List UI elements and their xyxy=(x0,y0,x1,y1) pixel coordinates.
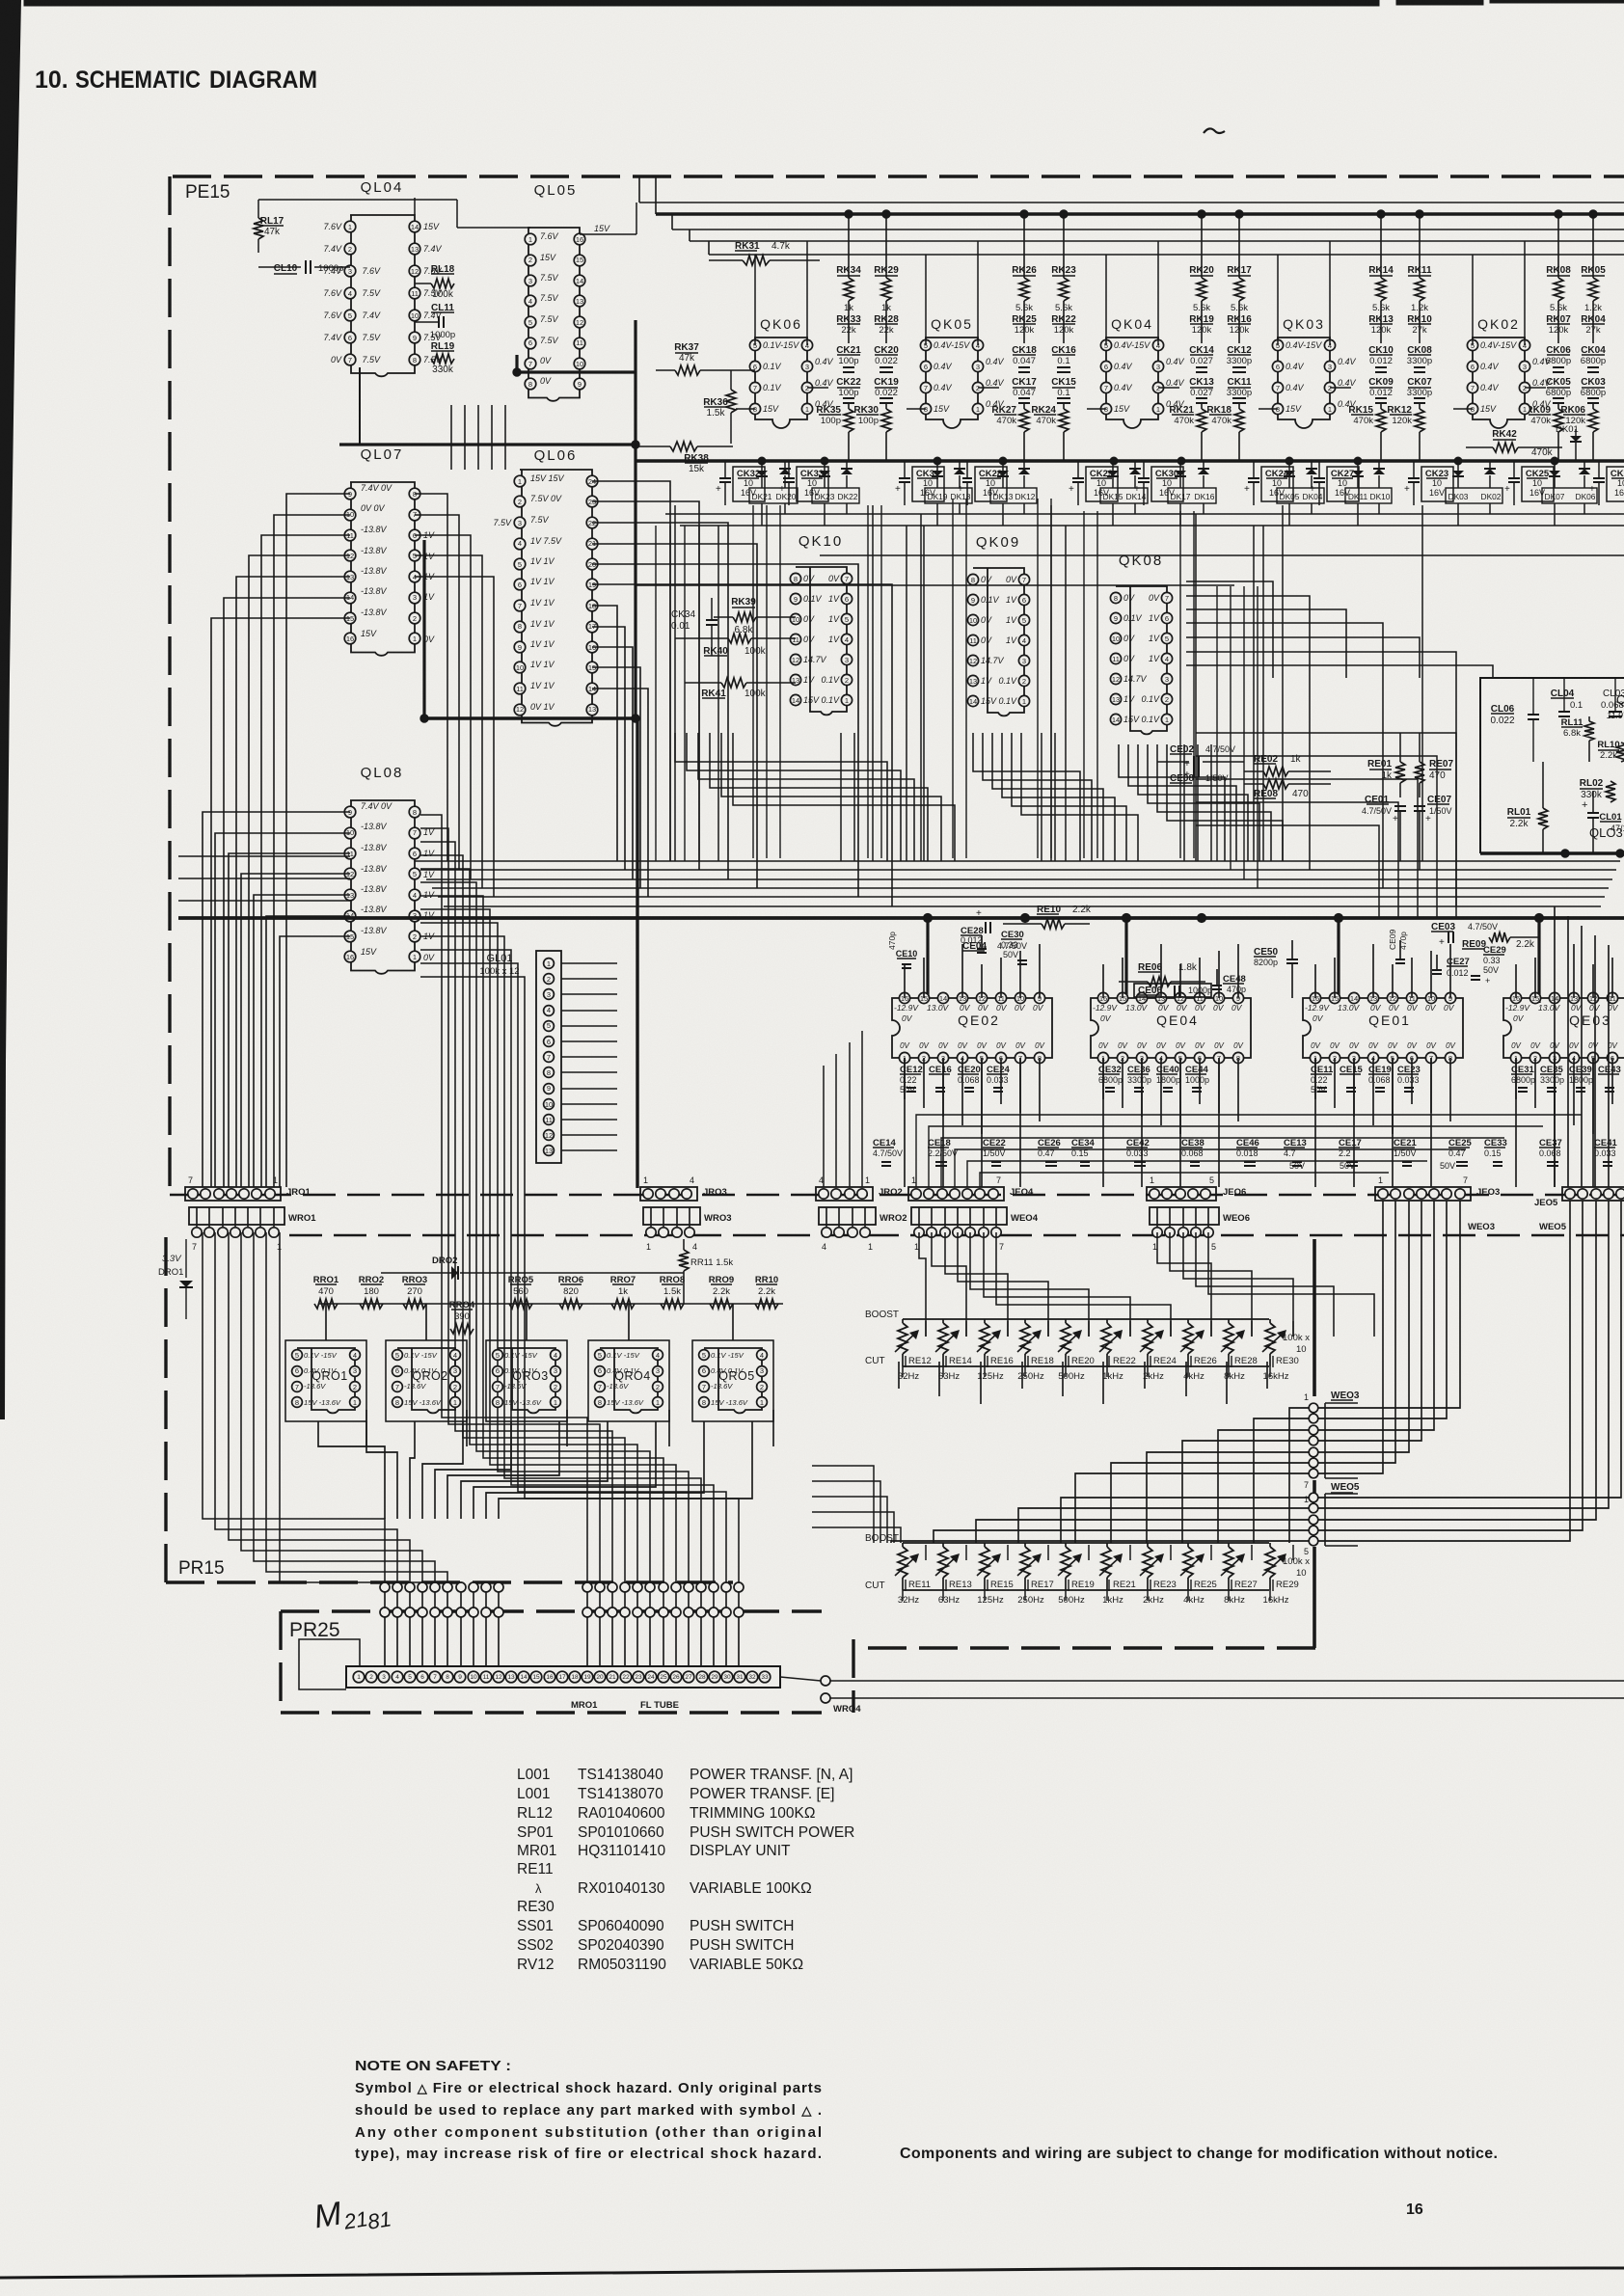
wire: top bus line 4 xyxy=(690,240,1624,242)
PR15 dashed separator at WR row xyxy=(289,1234,1624,1237)
wire bundle: WE06 staircase to sliders xyxy=(1157,1232,1211,1337)
wire bundle: verticals left of QK10 field xyxy=(655,526,657,861)
wire bundle: left wires into lower sliders xyxy=(812,1466,874,1543)
wire bundle: band A upper xyxy=(415,494,447,861)
IC QRO2 xyxy=(397,1348,455,1413)
wire bundle: QL08 left pins to JR01 verticals xyxy=(203,812,350,1187)
wires at QK05 pins xyxy=(977,241,979,345)
resistor column RK29/RK28/CK20/CK19/RK30 xyxy=(882,210,890,218)
connector JE05 xyxy=(1562,1187,1624,1201)
scan artifact: left black bar xyxy=(0,0,21,1419)
wire bundle: QL08 right staircase down to PR25 xyxy=(420,815,587,1587)
PE15 board dashed border left xyxy=(168,176,171,1193)
PE15/PR15 dashed separator at connector row xyxy=(170,1194,1624,1197)
wire: PR25 internal left xyxy=(299,1639,360,1689)
wire: QRO3 surround xyxy=(486,1340,567,1421)
wire bundle: JR02 verticals up xyxy=(823,1066,825,1187)
wire bundle: far right verticals above JE05 xyxy=(1554,906,1556,1187)
wire bundle: JE03 drops to WE03 xyxy=(1318,1201,1383,1473)
wire: QRO2 surround xyxy=(386,1340,467,1421)
wires at QK06 pins xyxy=(806,241,808,345)
wire bundle: verticals between QK groups extra xyxy=(840,733,842,861)
resistor column RK34/RK33/CK21/CK22/RK35 xyxy=(845,210,853,218)
connector JE03 xyxy=(1375,1187,1471,1201)
wires at QK04 pins xyxy=(1157,241,1159,345)
connector JR02 xyxy=(816,1187,873,1201)
scan artifact: top black strip xyxy=(24,0,1379,6)
wire: QL05 right verticals xyxy=(580,233,636,235)
wire bundle: verticals around QK09 xyxy=(952,499,954,858)
wire bundle: WE03 left staircase to lower sliders xyxy=(1289,1408,1309,1543)
wire bundle: WE04 staircase to sliders xyxy=(919,1232,926,1337)
wire bundle: QK09 bottom staircase xyxy=(973,733,1080,861)
wire: top bus line 1 xyxy=(639,202,1624,203)
wire: top bus line heavy xyxy=(656,212,1624,215)
connector WR02 xyxy=(819,1207,876,1225)
connector WR01 xyxy=(189,1207,284,1225)
connector JR03 xyxy=(640,1187,697,1201)
wire bundle: verticals around QK10 xyxy=(752,505,754,858)
resistor column RK26/RK25/CK18/CK17/RK27 xyxy=(1020,210,1028,218)
resistor column RK17/RK16/CK12/CK11/RK18 xyxy=(1235,210,1243,218)
wire: top bus line 3 xyxy=(672,229,1624,230)
wire: WR04 long lines to right xyxy=(830,1680,1624,1682)
PR25 dashed box xyxy=(281,1609,822,1612)
wire: heavy vertical x659 xyxy=(634,320,636,718)
resistor column RK05/RK04/CK04/CK03/RK06 xyxy=(1589,210,1597,218)
wire: lines below diode row xyxy=(665,513,1624,515)
wire: QE02 pin verticals xyxy=(904,964,906,998)
connector JR01 xyxy=(185,1187,281,1201)
wire: QE04 pin verticals xyxy=(1102,964,1104,998)
display connector MR01 33-pin strip xyxy=(346,1666,780,1688)
IC QRO1 xyxy=(297,1348,355,1413)
wire bundle: WR01 pins down to PR25 fan xyxy=(203,1232,385,1587)
IC QE04 xyxy=(1091,998,1251,1058)
PR15 dashed border left xyxy=(164,1237,167,1582)
resistor column RK20/RK19/CK14/CK13/RK21 xyxy=(1198,210,1205,218)
wire bundle: verticals around QK08 xyxy=(1096,511,1098,858)
wire: QL04 pin7 drop xyxy=(359,367,361,445)
wire bundle: QR bottoms to PR25 xyxy=(318,1421,385,1519)
PR15 heavy right border wire xyxy=(1313,1239,1316,1396)
wire bundle: verticals below QL05/QL06 gap xyxy=(450,405,452,470)
connector WE06 xyxy=(1150,1207,1219,1225)
resistor column RK23/RK22/CK16/CK15/RK24 xyxy=(1060,210,1068,218)
wire: heavy horizontal y461 xyxy=(339,443,636,446)
wire: heavy horizontal y745 xyxy=(422,716,637,719)
wires at QK02 pins xyxy=(1524,241,1526,345)
scan artifact: bottom edge line xyxy=(0,2268,1624,2278)
connector WR04 pins xyxy=(821,1676,830,1686)
wire: QE03 pin verticals xyxy=(1515,964,1517,998)
wire: heavy vertical x440 QL06 xyxy=(422,540,425,718)
scan mark tilde top right xyxy=(1204,128,1225,133)
handwritten mark M2181 xyxy=(311,2188,393,2243)
IC QE03 xyxy=(1503,998,1624,1058)
wire: QE01 pin verticals xyxy=(1314,964,1316,998)
wire: heavy vertical to JR03 xyxy=(636,718,638,1188)
wire bundle: JE05 drops to WE05 xyxy=(1318,1201,1570,1541)
IC QRO3 xyxy=(498,1348,555,1413)
resistor column RK14/RK13/CK10/CK09/RK15 xyxy=(1377,210,1385,218)
IC QRO4 xyxy=(600,1348,658,1413)
wire bundle: QL07 left pins westward xyxy=(286,494,350,1187)
wire bundle: QK08 to QL03 long verticals xyxy=(1216,586,1218,861)
wire: QRO5 surround xyxy=(692,1340,773,1421)
PR15 dashed border bottom-right xyxy=(868,1646,1316,1649)
wire bundle: QK08 bottom staircase xyxy=(1119,744,1225,861)
connector rows above PR25 xyxy=(380,1582,390,1592)
IC QRO5 xyxy=(704,1348,762,1413)
wire bundle: QL06 right pins eastward staircase xyxy=(592,481,670,861)
wire bundle: long mid horizontals xyxy=(415,860,1620,862)
wire: QRO1 surround xyxy=(285,1340,366,1421)
PR15 dashed border bottom-left xyxy=(166,1580,733,1583)
wire: verticals feeding top bus lines xyxy=(638,176,640,203)
wire: top bus line 5 xyxy=(709,254,1624,256)
resistor column RK11/RK10/CK08/CK07/RK12 xyxy=(1416,210,1423,218)
IC QE02 xyxy=(892,998,1052,1058)
IC QE01 xyxy=(1303,998,1463,1058)
wire: diode row heavy bus xyxy=(636,459,1624,462)
connector JE04 xyxy=(908,1187,1004,1201)
wires at QK03 pins xyxy=(1329,241,1331,345)
wire: QL04 top connections xyxy=(258,199,457,201)
amp block QL03 outline xyxy=(1480,678,1624,853)
resistor column RK08/RK07/CK06/CK05/RK09 xyxy=(1555,210,1562,218)
PE15 board dashed border top xyxy=(173,175,1624,177)
wire bundle: WE05 left staircase xyxy=(1061,1498,1309,1543)
wire: heavy mid bus y952 xyxy=(178,916,1624,920)
connector WE04 xyxy=(911,1207,1007,1225)
wire bundle: QE bottom drops to connectors xyxy=(904,1058,906,1187)
resistor row RR01-RR10 xyxy=(318,1303,783,1305)
wire: heavy net QL05 to bus xyxy=(515,355,518,372)
connector WR03 xyxy=(643,1207,700,1225)
wire bundle: QL03 staircase extra xyxy=(1196,733,1456,918)
wire bundle: slider row1 bottoms down xyxy=(898,1362,900,1389)
wire bundle: mid staircases QE to JE connectors xyxy=(916,1115,1582,1187)
wire: heavy verticals to QE pin15 xyxy=(926,918,929,998)
connector JE06 xyxy=(1147,1187,1216,1201)
wire bundle: staircase into QL03 box xyxy=(1186,581,1273,678)
wire bundle: QK10 bottom staircase xyxy=(675,733,887,861)
wire bundle: long verticals between QK groups xyxy=(674,505,676,861)
wire: QRO4 surround xyxy=(588,1340,669,1421)
